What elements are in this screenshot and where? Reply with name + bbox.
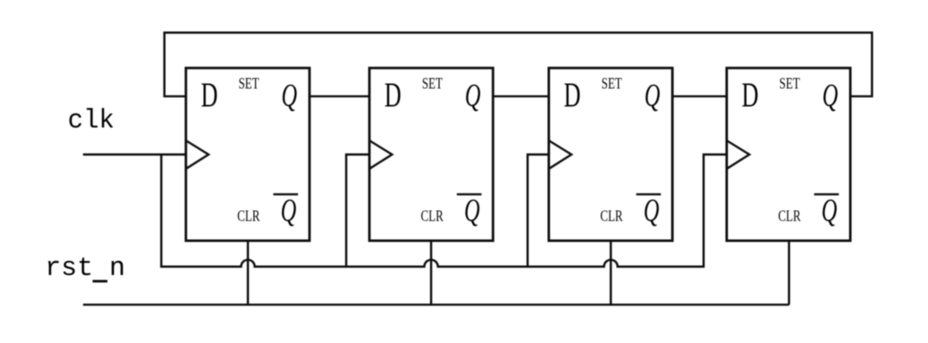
wire feedback Q4 to D1: [164, 33, 872, 97]
D flip-flop U3: [549, 68, 673, 241]
svg-text:n: n: [109, 254, 125, 284]
svg-text:Q: Q: [281, 193, 297, 230]
wire rst_n line: [83, 304, 789, 306]
clock input triangle U2: [369, 141, 392, 169]
svg-text:SET: SET: [601, 75, 622, 92]
svg-text:Q: Q: [465, 78, 481, 115]
wire Q2 to D3: [493, 95, 549, 97]
wire clock branch to U3: [528, 155, 549, 267]
flip-flop U1 body: [186, 68, 310, 241]
svg-text:Q: Q: [644, 193, 660, 230]
wire Q3 to D4: [672, 95, 726, 97]
pin label Qbar: [273, 193, 298, 230]
flip-flop U4 body: [727, 68, 851, 241]
svg-text:Q: Q: [821, 193, 837, 230]
svg-text:CLR: CLR: [778, 207, 801, 224]
pin label Qbar: [457, 193, 482, 230]
D flip-flop U1: [186, 68, 310, 241]
wire CLR drop U1: [247, 241, 249, 305]
svg-text:SET: SET: [779, 75, 800, 92]
svg-text:Q: Q: [464, 193, 480, 230]
svg-text:D: D: [201, 76, 218, 115]
wire CLR drop U4: [788, 241, 790, 305]
wire clock distribution with hop-overs: [161, 155, 726, 267]
svg-text:Q: Q: [644, 78, 660, 115]
net label rst_n: [45, 254, 125, 284]
wire clk input: [83, 153, 186, 155]
svg-text:rst: rst: [45, 254, 93, 284]
svg-text:SET: SET: [422, 75, 443, 92]
svg-text:Q: Q: [822, 78, 838, 115]
flip-flop U3 body: [549, 68, 673, 241]
pin label Qbar: [636, 193, 661, 230]
wire CLR drop U2: [430, 241, 432, 305]
wire clock branch to U2: [346, 155, 369, 267]
svg-text:D: D: [384, 76, 401, 115]
svg-text:CLR: CLR: [600, 207, 623, 224]
svg-text:SET: SET: [238, 75, 259, 92]
clock input triangle U1: [186, 141, 209, 169]
svg-text:D: D: [742, 76, 759, 115]
wire CLR drop U3: [610, 241, 612, 305]
wire Q1 to D2: [310, 95, 370, 97]
svg-text:D: D: [564, 76, 581, 115]
pin label Qbar: [814, 193, 839, 230]
clock input triangle U4: [727, 141, 750, 169]
D flip-flop U2: [369, 68, 493, 241]
D flip-flop U4: [727, 68, 851, 241]
svg-text:CLR: CLR: [237, 207, 260, 224]
flip-flop U2 body: [369, 68, 493, 241]
svg-text:CLR: CLR: [421, 207, 444, 224]
clock input triangle U3: [549, 141, 572, 169]
svg-text:Q: Q: [281, 78, 297, 115]
svg-text:clk: clk: [68, 105, 115, 136]
